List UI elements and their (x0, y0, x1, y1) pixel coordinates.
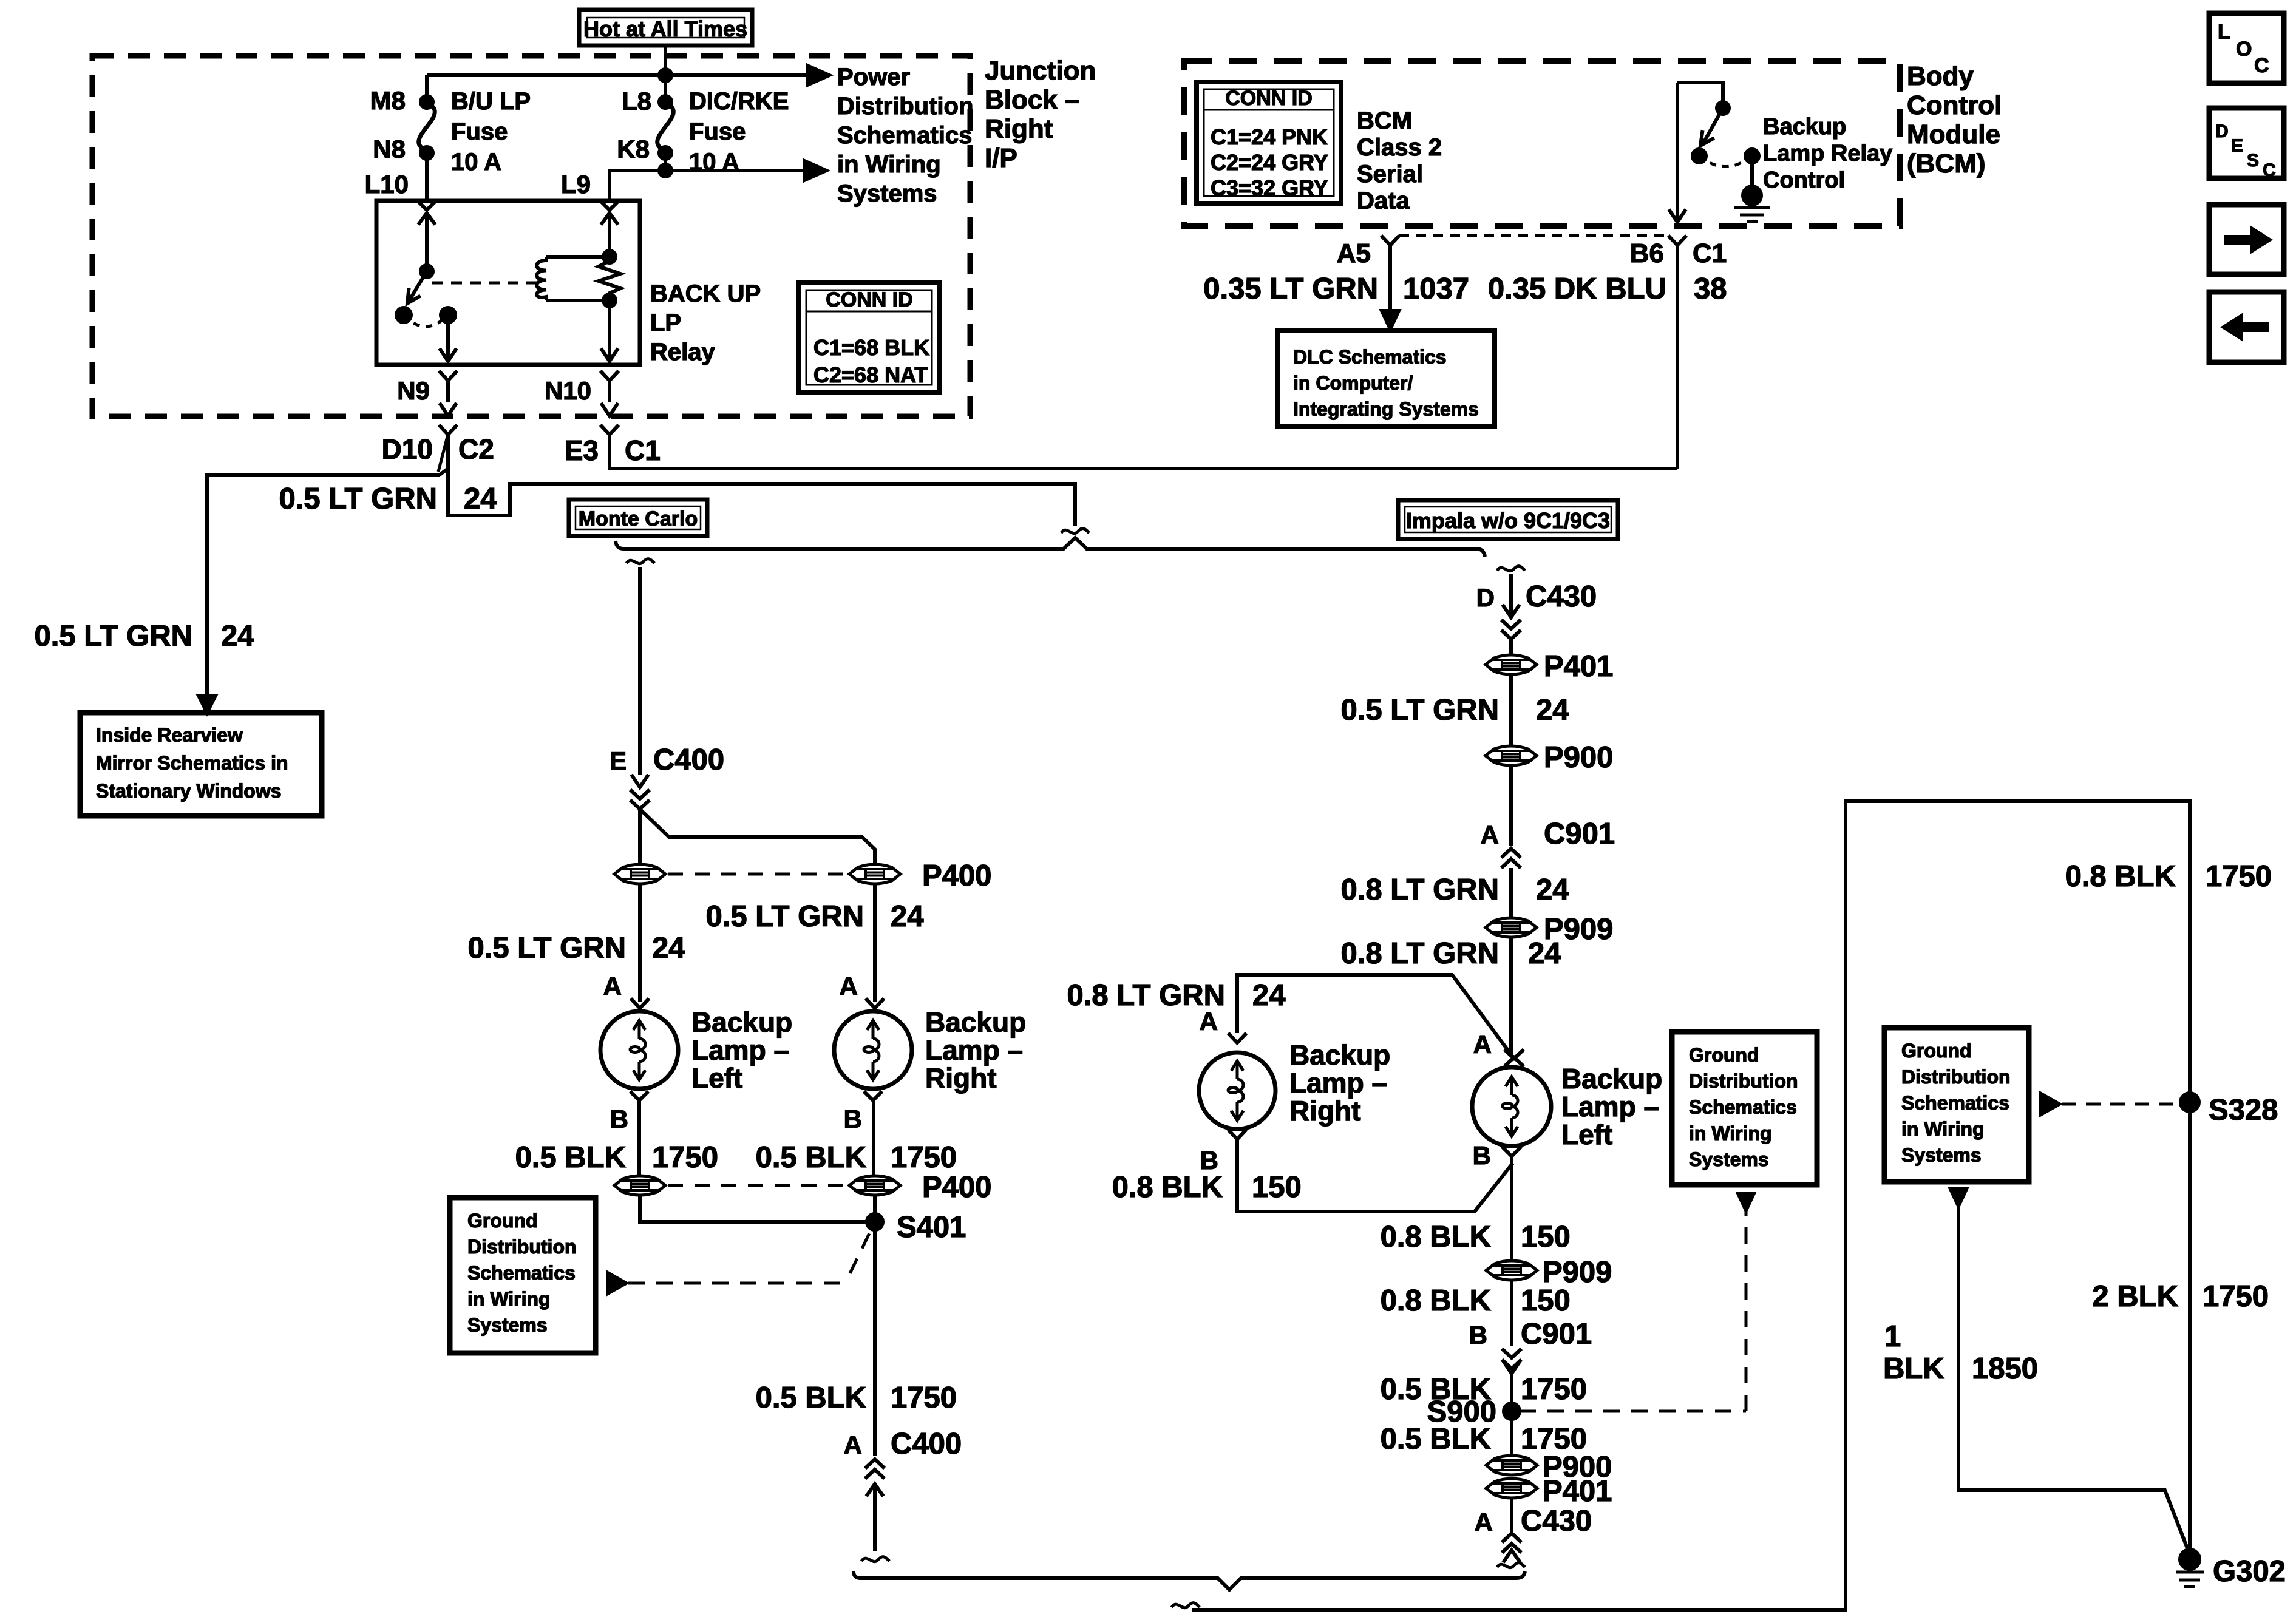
svg-text:0.5 BLK: 0.5 BLK (756, 1381, 866, 1414)
splice S900 dot (1504, 1403, 1520, 1419)
connector slash D10/C2 (438, 436, 447, 472)
wire E3-C1 rail to BCM (610, 435, 1677, 469)
svg-text:0.5 LT GRN: 0.5 LT GRN (706, 900, 864, 933)
connector label A / C430 (1475, 1505, 1592, 1537)
svg-text:Fuse: Fuse (689, 118, 746, 145)
connector P400 left (feed) (614, 864, 665, 884)
svg-text:C1=68 BLK: C1=68 BLK (813, 335, 929, 360)
svg-text:Module: Module (1907, 120, 2000, 149)
arrow from box to S328 (2041, 1094, 2059, 1114)
svg-text:P900: P900 (1544, 741, 1613, 774)
svg-text:C430: C430 (1521, 1505, 1592, 1537)
connector P900 (Impala feed) (1486, 746, 1537, 765)
wire label 0.5 LT GRN 24 mirror branch (35, 620, 254, 653)
wire C901 to S900 (1510, 1374, 1513, 1403)
connector chevron E3 below junction block (600, 425, 619, 435)
svg-text:Block –: Block – (985, 85, 1080, 115)
arrow N9 exit (440, 403, 457, 416)
BCM relay control switch wire (1677, 83, 1723, 102)
wire ground bus line lower left (854, 1571, 1525, 1590)
svg-text:Schematics: Schematics (1689, 1096, 1797, 1118)
svg-text:Systems: Systems (1689, 1148, 1769, 1170)
svg-text:Inside Rearview: Inside Rearview (96, 724, 243, 746)
svg-text:in Wiring: in Wiring (1901, 1118, 1985, 1140)
svg-text:24: 24 (652, 932, 685, 964)
svg-text:CONN ID: CONN ID (826, 288, 913, 311)
CONN ID table (junction block) (799, 283, 939, 392)
wire top feed horizontal (427, 73, 807, 77)
svg-text:Fuse: Fuse (451, 118, 508, 145)
svg-text:Schematics: Schematics (837, 122, 972, 149)
svg-text:1750: 1750 (891, 1381, 957, 1414)
svg-text:0.5 BLK: 0.5 BLK (756, 1141, 866, 1174)
svg-text:0.5 LT GRN: 0.5 LT GRN (35, 620, 192, 653)
svg-text:Lamp –: Lamp – (925, 1034, 1023, 1066)
svg-text:P909: P909 (1543, 1256, 1612, 1289)
svg-text:Backup: Backup (925, 1006, 1026, 1038)
lamp E2 Backup Lamp Right (Monte Carlo) (834, 1011, 912, 1089)
switch pivot dot (BCM) (1717, 102, 1729, 114)
nav box arrow left (2209, 292, 2284, 362)
label Backup Lamp Relay Control (1763, 114, 1892, 193)
connector label D10 / C2 (382, 433, 494, 465)
arrow from Ground Distribution box (Impala) (1738, 1193, 1754, 1210)
wire ground bus to G302 loop (1192, 801, 2190, 1610)
svg-text:Schematics: Schematics (467, 1262, 576, 1284)
contact dot right (BCM) (1745, 149, 1759, 163)
wire label 0.5 LT GRN 24 left branch (468, 932, 685, 964)
connector chevron B6 (1668, 236, 1686, 245)
wire label 0.5 BLK 1750 right (756, 1141, 957, 1174)
svg-text:in Wiring: in Wiring (1689, 1122, 1772, 1144)
resistor R1 in relay (599, 258, 620, 296)
svg-text:N10: N10 (545, 376, 591, 405)
svg-text:in Computer/: in Computer/ (1293, 372, 1413, 394)
wire label 0.5 LT GRN 24 right branch (706, 900, 924, 933)
svg-text:B: B (1469, 1321, 1487, 1349)
wire label 0.5 LT GRN 24 (Impala) (1341, 694, 1569, 727)
wire P401 to P900 (1509, 675, 1513, 745)
dashed reference line S900 to Ground Distribution box (1520, 1212, 1746, 1411)
wire D10 output (448, 435, 1075, 526)
BCM output wire to B6 (1676, 83, 1679, 221)
wire label 0.5 LT GRN 24 at D10 (279, 483, 497, 515)
svg-text:Schematics: Schematics (1901, 1092, 2009, 1114)
connector P400 left (ground) (614, 1176, 665, 1195)
arrow down at C901 ground (1503, 1361, 1520, 1374)
wire Impala right lamp ground (1237, 1139, 1513, 1212)
svg-text:DIC/RKE: DIC/RKE (689, 88, 789, 115)
svg-text:N8: N8 (373, 135, 406, 163)
lamp E3 Backup Lamp Right (Impala) (1199, 1053, 1275, 1129)
ground symbol bars (BCM) (1734, 208, 1770, 222)
svg-text:Right: Right (1289, 1095, 1361, 1127)
svg-text:A: A (603, 972, 622, 1000)
svg-text:Power: Power (837, 64, 910, 90)
svg-text:L8: L8 (622, 87, 651, 115)
svg-text:0.5 LT GRN: 0.5 LT GRN (468, 932, 626, 964)
svg-text:BCM: BCM (1357, 107, 1412, 134)
svg-text:0.8 BLK: 0.8 BLK (1381, 1284, 1491, 1317)
svg-text:Lamp –: Lamp – (1561, 1091, 1659, 1122)
lamp E1 Backup Lamp Left (Monte Carlo) (600, 1011, 678, 1089)
svg-text:Monte Carlo: Monte Carlo (579, 507, 698, 531)
wire K8 to junction (664, 153, 667, 171)
reference box Inside Rearview Mirror Schematics (80, 713, 322, 816)
svg-text:1037: 1037 (1403, 273, 1469, 305)
wire label 0.8 BLK 150 (right lamp) (1112, 1171, 1302, 1204)
svg-text:0.5 BLK: 0.5 BLK (1381, 1423, 1491, 1456)
connector P900 (Impala ground) (1486, 1456, 1537, 1475)
nav box DESC (2209, 108, 2284, 180)
svg-text:S328: S328 (2209, 1094, 2278, 1127)
dashed link between P400 halves (668, 873, 847, 876)
svg-text:Control: Control (1907, 90, 2002, 120)
svg-text:L9: L9 (561, 170, 591, 198)
svg-text:0.8 LT GRN: 0.8 LT GRN (1341, 873, 1499, 906)
relay switch arm (409, 271, 427, 302)
dashed reference line to S401 (628, 1282, 844, 1285)
connector chevron L9 (600, 200, 619, 210)
svg-text:Data: Data (1357, 188, 1410, 214)
wire label 0.8 BLK 1750 (right loop) (2065, 860, 2272, 893)
svg-text:24: 24 (891, 900, 924, 933)
svg-text:Ground: Ground (1901, 1040, 1972, 1062)
connector chevrons C400 ground (865, 1459, 885, 1479)
svg-text:24: 24 (1252, 979, 1286, 1012)
break tilde end of 0.5 LT GRN rail (1061, 529, 1089, 534)
arrow down at BCM exit (1669, 209, 1686, 222)
relay right wire with up arrow (608, 214, 611, 258)
svg-text:C3=32 GRY: C3=32 GRY (1211, 175, 1328, 200)
wire P909 down to left lamp (1509, 938, 1513, 1056)
ground G302 ball (2180, 1550, 2199, 1569)
svg-text:C430: C430 (1526, 580, 1597, 613)
svg-text:C400: C400 (891, 1428, 962, 1460)
arrow N10 exit (601, 403, 618, 416)
svg-text:150: 150 (1521, 1221, 1571, 1253)
break tilde bottom of Monte ground (861, 1557, 889, 1562)
svg-text:P401: P401 (1543, 1475, 1612, 1508)
svg-text:Left: Left (691, 1062, 742, 1094)
wire right lamp to splice S401 (873, 1196, 877, 1222)
connector label B / C901 (1469, 1318, 1592, 1351)
wire ground bus line lower right with break tilde (1172, 1603, 1200, 1608)
wire branch to Impala right lamp (1237, 975, 1514, 1059)
connector P400 right (feed) (849, 864, 900, 884)
wire N9 stem (446, 381, 450, 402)
wire left lamp ground (637, 1100, 641, 1175)
wire to left lamp A (638, 884, 642, 1002)
label Backup Lamp Right (Impala) (1289, 1039, 1390, 1127)
svg-text:1750: 1750 (891, 1141, 957, 1174)
wire branch to inside rearview mirror (207, 469, 448, 701)
svg-text:BACK UP: BACK UP (650, 280, 761, 307)
wire N10 stem (608, 381, 611, 402)
splice S328 dot (2181, 1093, 2199, 1111)
svg-text:Distribution: Distribution (837, 93, 973, 120)
svg-text:P401: P401 (1544, 650, 1613, 683)
terminal chevron A left lamp (631, 998, 649, 1008)
svg-text:A: A (1481, 821, 1499, 849)
svg-text:Right: Right (985, 114, 1053, 144)
relay contact dot right (441, 308, 455, 322)
wire N8 to L10 (425, 153, 429, 202)
wire Impala drop (1509, 574, 1513, 614)
fuse B/U LP (M8-N8) (419, 96, 435, 159)
label Power Distribution Schematics in Wiring Systems (837, 64, 973, 207)
svg-text:E: E (610, 747, 627, 775)
svg-text:1750: 1750 (2203, 1280, 2269, 1313)
wire to body break (873, 1486, 877, 1551)
title Body Control Module (BCM) (1907, 61, 2002, 178)
svg-text:24: 24 (1536, 694, 1569, 727)
wire P909 to C901 ground (1510, 1281, 1513, 1346)
wire B6 down to rail (1676, 245, 1679, 469)
svg-text:(BCM): (BCM) (1907, 149, 1986, 178)
reference box Ground Distribution (Monte Carlo) (450, 1198, 596, 1353)
relay switch common wire with up arrow (425, 214, 429, 271)
svg-text:K8: K8 (617, 135, 650, 163)
svg-text:B6: B6 (1630, 239, 1664, 268)
connector chevrons C430 (1501, 620, 1521, 639)
contact dot left (BCM) (1693, 149, 1706, 163)
svg-text:D: D (1476, 583, 1495, 612)
wire left lamp to splice S401 (640, 1196, 867, 1222)
arrow down from Ground Distribution box to 1 BLK wire (1951, 1189, 1966, 1206)
svg-text:A: A (844, 1431, 862, 1459)
svg-text:DLC Schematics: DLC Schematics (1293, 346, 1447, 368)
svg-text:0.8 BLK: 0.8 BLK (1381, 1221, 1491, 1253)
arrow into mirror box (199, 696, 216, 713)
svg-text:Backup: Backup (1561, 1063, 1662, 1094)
svg-text:Serial: Serial (1357, 161, 1423, 188)
wire Impala left lamp ground down (1510, 1156, 1513, 1260)
fuse DIC/RKE (L8-K8) (657, 96, 674, 159)
svg-text:C901: C901 (1521, 1318, 1592, 1351)
svg-text:M8: M8 (370, 86, 406, 115)
arrow from Ground Distribution box to S401 (608, 1273, 626, 1293)
svg-text:C2: C2 (458, 433, 494, 465)
connector chevron L10 (417, 200, 436, 210)
arrow up at C430 ground (1503, 1550, 1520, 1562)
svg-text:Lamp –: Lamp – (691, 1034, 789, 1066)
wire label 0.8 LT GRN 24 (right lamp) (1067, 979, 1286, 1012)
label Backup Lamp Left (Impala) (1561, 1063, 1662, 1150)
wire bus rail for Monte Carlo / Impala branches (616, 538, 1485, 557)
label box "Hot at All Times" (579, 10, 752, 46)
svg-text:24: 24 (1528, 937, 1561, 970)
svg-text:C1=24 PNK: C1=24 PNK (1211, 124, 1328, 149)
wire label 2 BLK 1750 (2092, 1280, 2269, 1313)
wire P401 to C430 ground (1510, 1499, 1513, 1533)
svg-text:CONN ID: CONN ID (1225, 87, 1313, 110)
svg-text:C901: C901 (1544, 818, 1615, 850)
terminal chevron B right lamp (864, 1091, 882, 1100)
node junction dot at top feed (659, 69, 671, 81)
wire label 1 BLK 1850 (1883, 1320, 2038, 1385)
svg-text:Left: Left (1561, 1119, 1612, 1150)
svg-text:L: L (2218, 21, 2230, 44)
arrow to Power Distribution (807, 66, 829, 85)
wire to P401 (1509, 639, 1513, 654)
reference box DLC Schematics (1278, 330, 1495, 427)
svg-text:150: 150 (1252, 1171, 1302, 1204)
svg-text:0.5 LT GRN: 0.5 LT GRN (279, 483, 437, 515)
svg-text:E: E (2231, 136, 2243, 156)
wire 1 BLK 1850 to G302 (1958, 1208, 2189, 1551)
wire S900 down (1510, 1419, 1513, 1454)
svg-text:Ground: Ground (467, 1210, 538, 1232)
svg-text:Distribution: Distribution (1901, 1066, 2011, 1088)
svg-text:24: 24 (1536, 873, 1569, 906)
wire Monte left lamp feed (638, 809, 642, 864)
svg-text:0.35 DK BLU: 0.35 DK BLU (1488, 273, 1666, 305)
label box Monte Carlo (569, 500, 707, 536)
arrow to in Wiring Systems (804, 161, 826, 180)
wire A5 class 2 serial data (1388, 245, 1392, 316)
wire S401 down (873, 1230, 877, 1456)
connector P401 (Impala feed) (1486, 655, 1537, 674)
svg-text:B: B (844, 1105, 862, 1133)
wire label 0.8 LT GRN 24 (below P909) (1341, 937, 1561, 970)
svg-text:1850: 1850 (1972, 1352, 2038, 1385)
svg-text:I/P: I/P (985, 143, 1017, 173)
wire junction to L9 drop (610, 171, 665, 200)
connector P400 right (ground) (849, 1176, 900, 1195)
svg-text:B: B (610, 1105, 628, 1133)
svg-text:G302: G302 (2213, 1555, 2286, 1588)
svg-text:10 A: 10 A (451, 149, 501, 175)
ground G302 bars (2176, 1572, 2204, 1587)
svg-text:Right: Right (925, 1062, 997, 1094)
connector chevrons C400 (630, 790, 650, 809)
reference box Ground Distribution (Impala S900) (1672, 1032, 1817, 1185)
title Junction Block - Right I/P (985, 56, 1096, 173)
wire label 0.8 LT GRN 24 (Impala upper) (1341, 873, 1569, 906)
svg-text:A: A (1475, 1508, 1493, 1536)
svg-text:Integrating Systems: Integrating Systems (1293, 398, 1479, 420)
wire Monte right lamp branch (640, 809, 875, 864)
svg-text:S: S (2247, 151, 2259, 171)
svg-text:in Wiring: in Wiring (467, 1288, 551, 1310)
svg-text:P400: P400 (922, 859, 991, 892)
svg-text:0.35 LT GRN: 0.35 LT GRN (1203, 273, 1378, 305)
relay coil L1 (537, 257, 546, 300)
svg-text:Hot at All Times: Hot at All Times (583, 16, 747, 41)
svg-text:Lamp –: Lamp – (1289, 1067, 1387, 1099)
connector label E / C400 (610, 744, 724, 776)
arrow into DLC box (1382, 311, 1399, 329)
connector chevron N10 (600, 371, 619, 381)
svg-text:D: D (2215, 121, 2229, 141)
svg-text:1750: 1750 (2206, 860, 2272, 893)
wire label 0.35 LT GRN 1037 (1203, 273, 1469, 305)
svg-text:D10: D10 (382, 433, 433, 465)
svg-text:Junction: Junction (985, 56, 1096, 86)
svg-text:B: B (1473, 1141, 1491, 1170)
svg-text:2 BLK: 2 BLK (2092, 1280, 2178, 1313)
svg-text:Distribution: Distribution (467, 1236, 577, 1258)
connector P909 (Impala ground) (1486, 1261, 1537, 1280)
svg-text:A5: A5 (1337, 239, 1371, 268)
svg-text:Mirror Schematics in: Mirror Schematics in (96, 752, 288, 774)
svg-text:L10: L10 (365, 170, 409, 198)
fuse value label DIC/RKE Fuse 10 A (689, 88, 789, 175)
label BACK UP LP Relay (650, 280, 761, 365)
relay output wire with down arrow (446, 315, 450, 361)
dashed arc switch (BCM) (1699, 156, 1752, 167)
svg-text:Ground: Ground (1689, 1044, 1759, 1066)
connector chevrons C901 ground (1502, 1349, 1521, 1369)
svg-text:0.5 LT GRN: 0.5 LT GRN (1341, 694, 1499, 727)
BCM U1 dashed box (1184, 61, 1900, 226)
svg-text:Impala w/o 9C1/9C3: Impala w/o 9C1/9C3 (1406, 508, 1610, 533)
node dot coil bottom (603, 294, 616, 307)
break tilde start of Monte Carlo drop (627, 559, 654, 564)
terminal chevron B left lamp (630, 1091, 648, 1100)
CONN ID table (BCM) (1197, 82, 1341, 203)
connector chevron N9 (439, 371, 457, 381)
label box Impala w/o 9C1/9C3 (1398, 500, 1618, 539)
junction block dashed border (92, 56, 970, 416)
connector chevrons C901 up (1501, 849, 1521, 868)
connector chevron A5 (1381, 236, 1399, 245)
svg-text:Body: Body (1907, 61, 1974, 91)
node junction dot below K8 (659, 164, 671, 177)
svg-text:BLK: BLK (1883, 1352, 1944, 1385)
svg-text:Backup: Backup (691, 1006, 792, 1038)
connector P401 (Impala ground) (1486, 1479, 1537, 1498)
svg-text:24: 24 (464, 483, 497, 515)
svg-text:0.5 BLK: 0.5 BLK (515, 1141, 626, 1174)
svg-text:1: 1 (1884, 1320, 1901, 1353)
dashed reference line to S328 (2062, 1103, 2176, 1106)
wire label 0.5 BLK 1750 below S401 (756, 1381, 957, 1414)
break tilde bottom of Impala ground (1497, 1563, 1525, 1568)
svg-text:C2=24 GRY: C2=24 GRY (1211, 150, 1328, 175)
arrow down at C430 (1503, 605, 1520, 617)
connector chevron D10 below junction block (439, 425, 457, 435)
label BCM Class 2 Serial Data (1357, 107, 1442, 214)
wire Monte Carlo drop (638, 567, 642, 775)
svg-text:C2=68 NAT: C2=68 NAT (813, 362, 928, 387)
svg-text:P400: P400 (922, 1171, 991, 1204)
splice S401 dot (867, 1214, 883, 1230)
terminal chevron B (Impala right lamp) (1228, 1130, 1246, 1139)
svg-text:Distribution: Distribution (1689, 1070, 1798, 1092)
svg-text:B: B (1200, 1146, 1218, 1175)
svg-text:0.8 BLK: 0.8 BLK (2065, 860, 2176, 893)
wire label 0.5 BLK 1750 left (515, 1141, 718, 1174)
svg-text:N9: N9 (397, 376, 430, 405)
ground G ball (BCM) (1743, 186, 1761, 205)
svg-text:24: 24 (221, 620, 254, 653)
switch arm (BCM) (1703, 108, 1723, 144)
arrow up at C400 ground (866, 1484, 883, 1496)
connector chevrons C430 ground (1502, 1533, 1521, 1553)
wire coil bottom connection (546, 299, 610, 302)
connector label D / C430 (1476, 580, 1597, 613)
svg-text:1750: 1750 (1521, 1373, 1587, 1406)
svg-text:S401: S401 (897, 1211, 966, 1244)
wire right lamp ground (872, 1100, 875, 1175)
relay right output wire with down arrow (608, 300, 611, 361)
lamp E4 Backup Lamp Left (Impala) (1472, 1067, 1551, 1146)
svg-text:Control: Control (1763, 168, 1845, 193)
svg-text:Systems: Systems (1901, 1144, 1982, 1166)
wire C901 to P909 (1509, 868, 1513, 917)
